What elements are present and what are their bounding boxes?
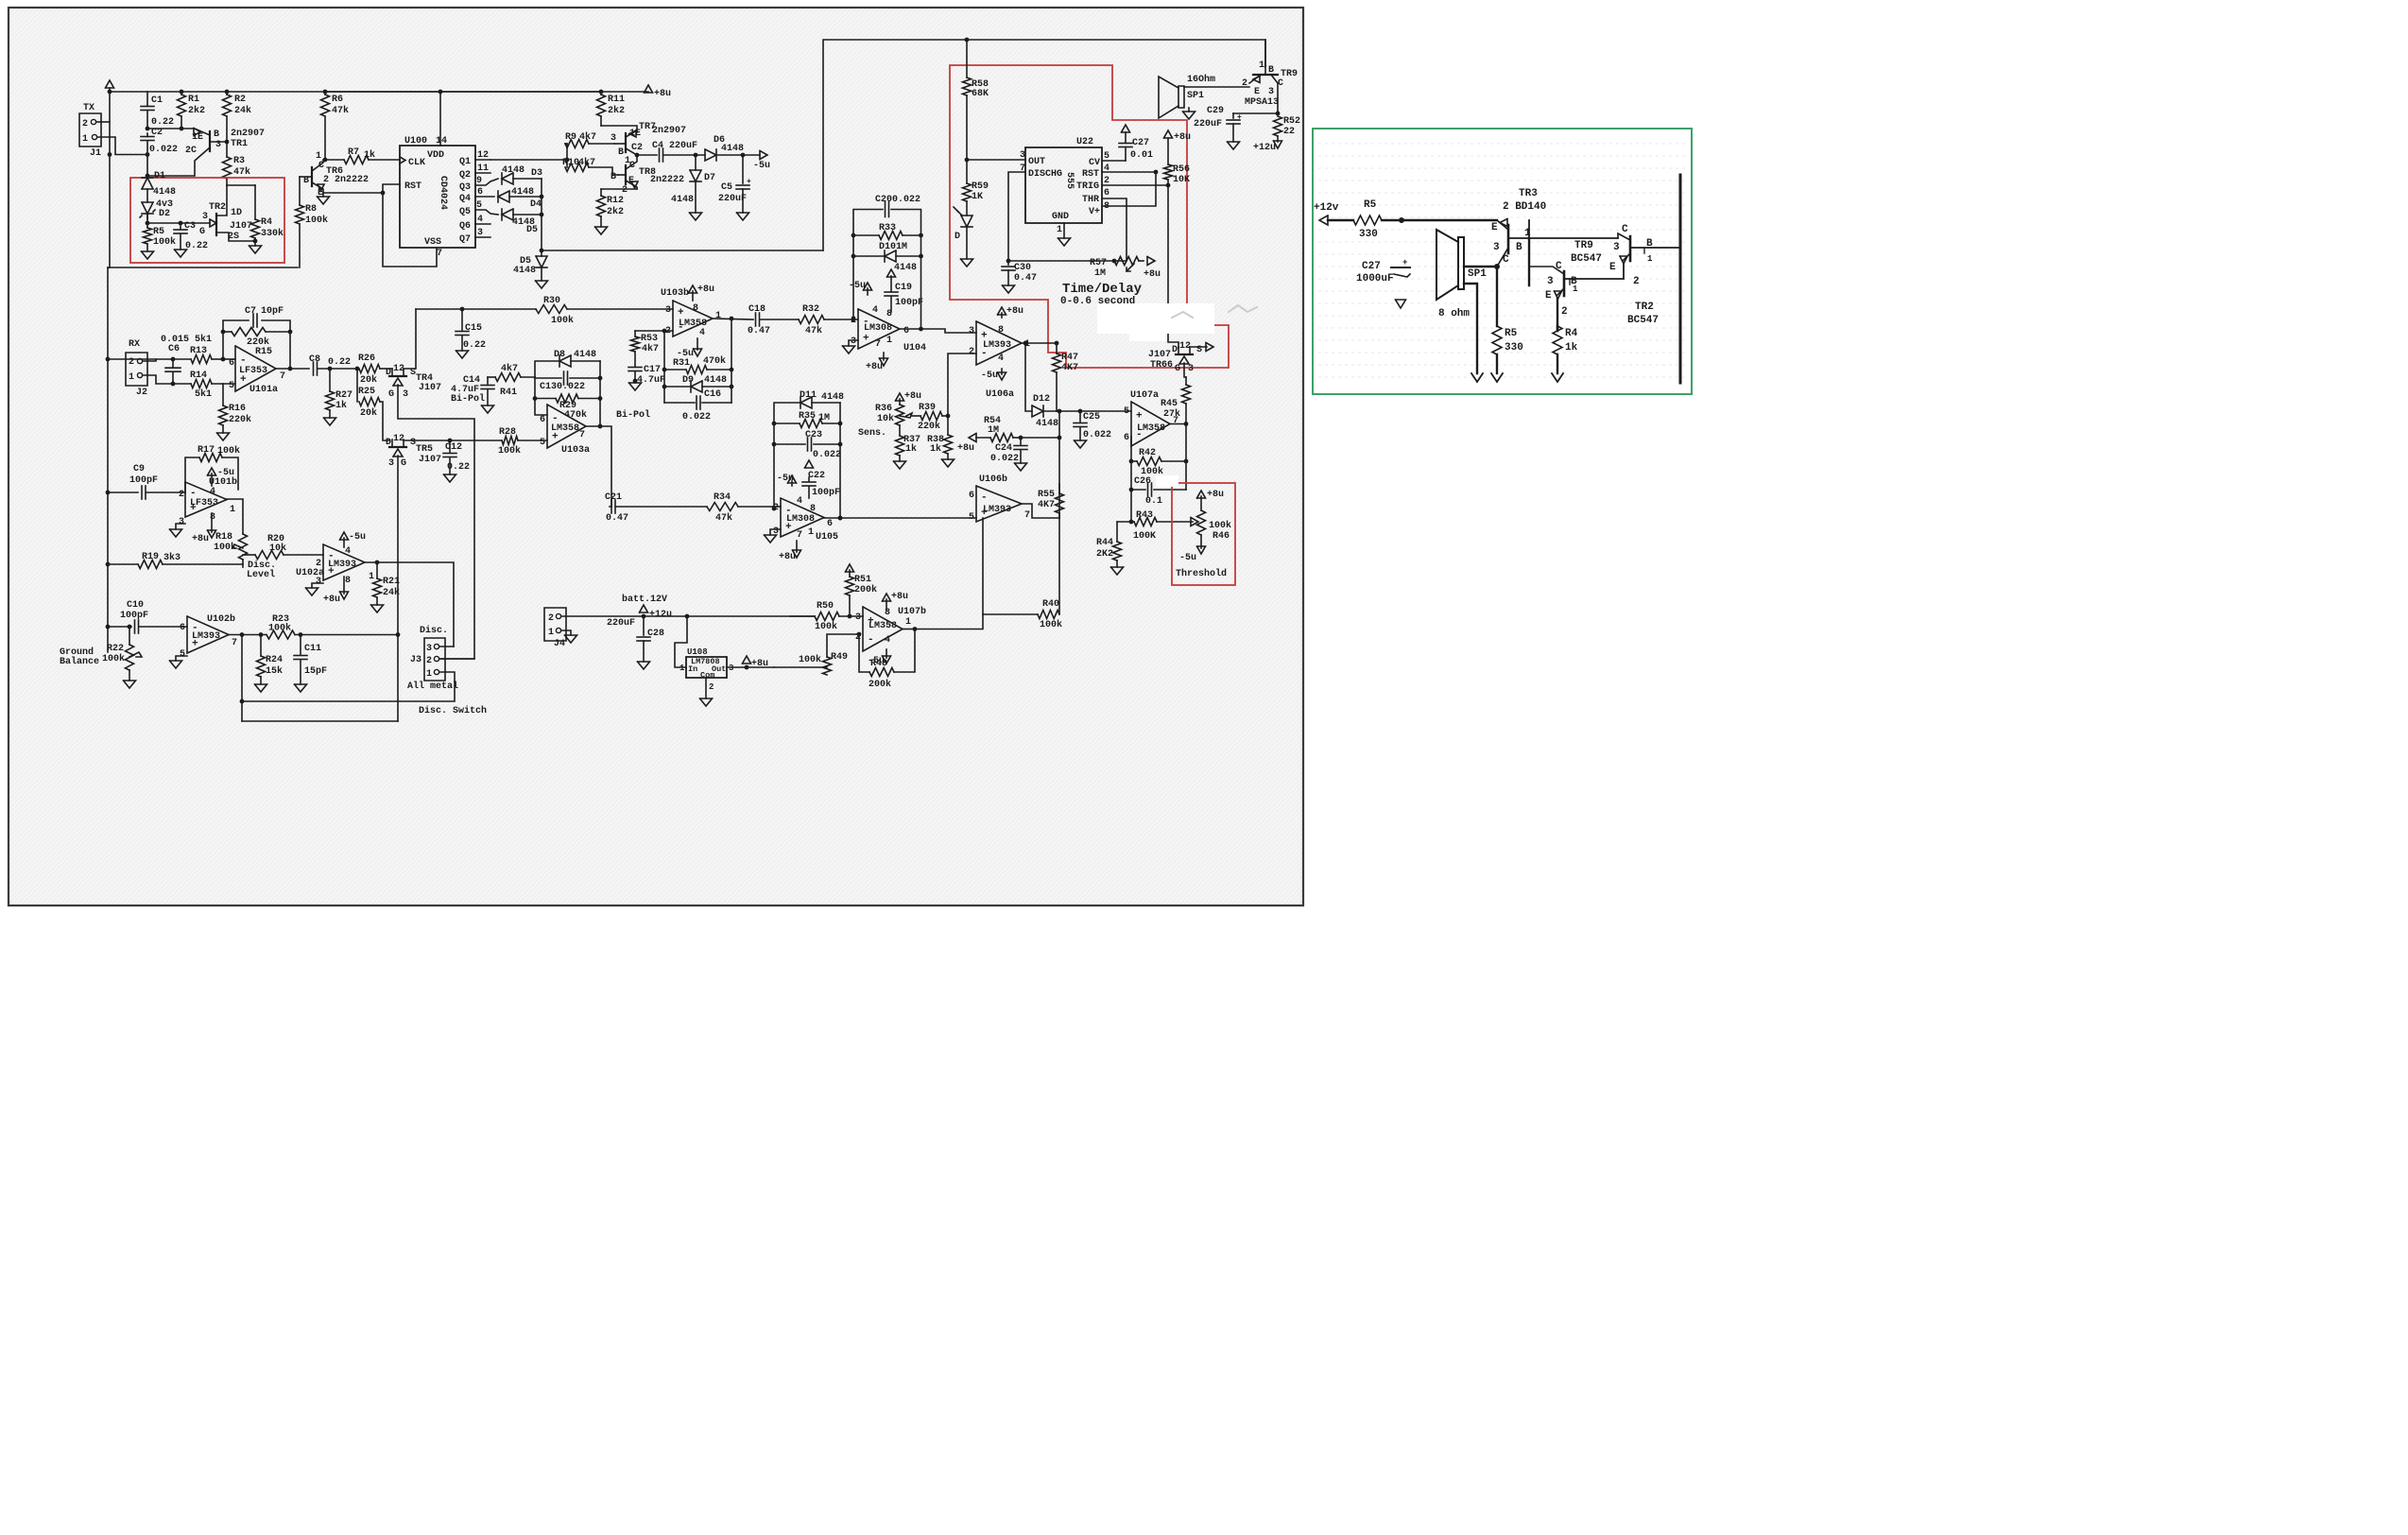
svg-text:2: 2	[1561, 306, 1568, 318]
svg-text:C5: C5	[721, 182, 732, 193]
power arrow +8u right end of bus	[645, 85, 653, 93]
transistor TR5 J107	[389, 446, 406, 448]
LED D	[961, 216, 972, 227]
svg-text:5k1: 5k1	[195, 334, 212, 345]
wire U106b out to R55	[1022, 504, 1059, 518]
svg-text:+12v: +12v	[1314, 202, 1339, 214]
svg-text:R43: R43	[1136, 510, 1153, 521]
wire left rail to C6 row	[108, 358, 156, 360]
svg-text:100k: 100k	[498, 445, 521, 457]
inset speaker return wire	[1464, 284, 1477, 373]
svg-text:4: 4	[998, 354, 1004, 364]
resistor R21 24k	[376, 562, 378, 578]
svg-text:200k: 200k	[869, 679, 891, 690]
svg-text:5: 5	[969, 512, 974, 523]
svg-text:U103a: U103a	[561, 445, 590, 456]
svg-text:7: 7	[797, 530, 802, 541]
svg-text:RST: RST	[1082, 169, 1099, 180]
bottom rail of TX block	[108, 267, 298, 268]
ground below D5	[536, 281, 548, 288]
wire U102b out down	[241, 635, 243, 722]
svg-text:batt.12V: batt.12V	[622, 594, 667, 605]
wire U106a out to R47	[1022, 342, 1057, 344]
svg-text:2n2907: 2n2907	[652, 126, 686, 136]
svg-text:R25: R25	[358, 387, 375, 397]
svg-text:TR9: TR9	[1574, 240, 1593, 251]
svg-text:2k2: 2k2	[608, 105, 625, 116]
svg-text:Bi-Pol: Bi-Pol	[451, 393, 485, 405]
svg-text:TRIG: TRIG	[1076, 181, 1099, 192]
wire C24 node to R47 column	[1021, 437, 1059, 439]
svg-text:C26: C26	[1134, 476, 1151, 487]
svg-text:C7: C7	[245, 306, 256, 317]
op-amp U106a LM393	[976, 321, 1022, 365]
svg-text:J107: J107	[230, 221, 252, 232]
svg-text:100k: 100k	[551, 315, 574, 326]
wire U102a out to J3 pin3	[365, 562, 454, 647]
capacitor C16 0.022	[664, 402, 695, 404]
diode D6 4148	[705, 149, 716, 161]
svg-text:20k: 20k	[360, 407, 377, 419]
svg-text:CLK: CLK	[408, 158, 425, 168]
svg-text:C: C	[1503, 254, 1509, 266]
svg-text:+8u: +8u	[779, 552, 796, 562]
svg-text:C: C	[318, 161, 324, 171]
junction dot R26 left	[355, 367, 360, 371]
svg-text:+8u: +8u	[1144, 269, 1161, 280]
junction dot U101a in- node	[221, 357, 226, 362]
svg-text:100k: 100k	[799, 654, 821, 665]
svg-text:8: 8	[693, 303, 698, 314]
svg-text:R14: R14	[190, 371, 207, 381]
wire U107a out node	[1170, 423, 1186, 425]
svg-text:-5u: -5u	[1179, 553, 1196, 563]
svg-text:1k: 1k	[1565, 342, 1578, 354]
wire top bus +8v rail	[110, 91, 648, 93]
svg-text:6: 6	[969, 491, 974, 501]
resistor R44 2K2	[1116, 522, 1118, 542]
svg-text:2: 2	[426, 656, 432, 666]
svg-text:0.022: 0.022	[813, 450, 841, 460]
svg-text:R26: R26	[358, 354, 375, 364]
wire U106 outputs to R40 col	[982, 518, 984, 614]
svg-text:RST: RST	[404, 181, 421, 192]
svg-text:5: 5	[229, 381, 234, 391]
svg-text:3: 3	[179, 517, 184, 527]
svg-text:C22: C22	[808, 471, 825, 481]
capacitor C25 0.022	[1079, 411, 1081, 422]
svg-text:16Ohm: 16Ohm	[1187, 74, 1215, 85]
svg-text:R15: R15	[255, 347, 272, 357]
svg-text:LM308: LM308	[786, 514, 815, 525]
svg-text:R33: R33	[879, 223, 896, 233]
resistor R41 4k7	[488, 376, 495, 378]
white patch artifact near TR66	[1097, 303, 1214, 334]
inset transistor TR3 BD140	[1507, 225, 1510, 253]
svg-text:LF353: LF353	[190, 498, 218, 509]
potentiometer R46 100k	[1197, 510, 1206, 535]
ground U101b pin3	[176, 524, 185, 529]
svg-text:LM358: LM358	[869, 621, 897, 631]
pin stubs U100 outputs	[475, 159, 490, 161]
inset ground V below R5	[1491, 373, 1503, 382]
svg-text:D1: D1	[154, 171, 165, 181]
svg-text:R44: R44	[1096, 538, 1113, 548]
svg-text:+: +	[1136, 411, 1143, 423]
svg-text:Q3: Q3	[459, 182, 471, 193]
op-amp U104 LM308	[858, 309, 900, 349]
svg-text:Threshold: Threshold	[1176, 568, 1227, 579]
capacitor C14 4.7uF Bi-Pol	[487, 377, 489, 384]
svg-text:TR2: TR2	[1635, 302, 1654, 313]
junction dot C10-R22	[128, 625, 132, 630]
diode D3 4148	[502, 173, 513, 184]
svg-text:Time/Delay: Time/Delay	[1062, 282, 1143, 297]
svg-text:3: 3	[729, 664, 733, 673]
svg-text:R12: R12	[607, 196, 624, 206]
svg-text:Q1: Q1	[459, 157, 471, 167]
svg-text:R31: R31	[673, 358, 690, 369]
ground below 555 GND pin	[1063, 223, 1065, 238]
svg-text:8: 8	[345, 576, 351, 586]
svg-text:1: 1	[548, 628, 554, 638]
svg-text:6: 6	[180, 623, 185, 633]
capacitor C21 0.47	[610, 506, 611, 508]
svg-text:1: 1	[1057, 225, 1062, 235]
resistor R13 5k1	[173, 358, 191, 360]
ground below R16	[217, 433, 230, 440]
svg-text:4k7: 4k7	[578, 157, 595, 168]
resistor R55 4K7	[1058, 484, 1060, 493]
svg-text:BC547: BC547	[1571, 253, 1602, 265]
svg-text:2n2222: 2n2222	[650, 175, 684, 185]
resistor R53 4k7	[634, 331, 636, 336]
svg-text:24k: 24k	[383, 587, 400, 598]
svg-text:VSS: VSS	[424, 237, 441, 248]
svg-text:3: 3	[477, 228, 483, 238]
svg-text:+8u: +8u	[891, 592, 908, 602]
svg-text:D: D	[1172, 345, 1178, 355]
ground below speaker SP1	[1188, 108, 1190, 112]
svg-text:1: 1	[1259, 60, 1264, 71]
svg-text:4k7: 4k7	[579, 131, 596, 143]
svg-text:TR2: TR2	[209, 202, 226, 213]
svg-text:Q2: Q2	[459, 170, 471, 181]
resistor R28 100k	[502, 437, 518, 445]
svg-text:U106a: U106a	[986, 389, 1014, 400]
wire U106a pin2 to R38 node	[948, 354, 976, 416]
wire J3 pin1 to all-metal line	[242, 672, 455, 701]
svg-text:R57: R57	[1090, 258, 1107, 268]
svg-text:R32: R32	[802, 304, 819, 315]
svg-text:U106b: U106b	[979, 474, 1007, 485]
svg-text:47k: 47k	[332, 105, 349, 116]
svg-text:0.47: 0.47	[1014, 273, 1037, 284]
power -5v below U107b	[886, 649, 887, 658]
potentiometer R18 100k Disc Level	[239, 534, 248, 560]
svg-text:U108: U108	[687, 647, 708, 657]
svg-text:4148: 4148	[511, 187, 534, 198]
svg-text:7: 7	[875, 339, 881, 350]
svg-text:0.1: 0.1	[1145, 496, 1162, 507]
svg-text:330k: 330k	[261, 228, 284, 239]
svg-text:D4: D4	[530, 199, 542, 210]
svg-text:J4: J4	[554, 639, 565, 649]
svg-text:C: C	[1622, 224, 1628, 235]
resistor R45 27k	[1185, 377, 1187, 385]
svg-text:3k3: 3k3	[163, 552, 181, 563]
capacitor C28 220uF	[643, 616, 645, 635]
feedback box U103a left	[535, 377, 547, 415]
arrow above C27	[1122, 125, 1130, 132]
svg-text:R8: R8	[305, 204, 317, 215]
wire TR5 source to R28	[404, 440, 502, 441]
junction dots on +8v bus	[180, 90, 184, 95]
svg-text:LM393: LM393	[192, 631, 220, 642]
svg-text:3: 3	[403, 389, 408, 400]
connector J3 Disc switch	[424, 638, 445, 681]
wire U101a output	[276, 368, 309, 370]
svg-text:C200.022: C200.022	[875, 195, 920, 205]
svg-text:TX: TX	[83, 103, 95, 113]
feedback resistor R17 100k	[185, 457, 199, 492]
inset wire TR3 base node down	[1528, 238, 1530, 285]
svg-text:In: In	[688, 664, 697, 674]
svg-text:D: D	[955, 232, 960, 242]
svg-text:470k: 470k	[564, 409, 587, 421]
svg-text:U22: U22	[1076, 137, 1093, 147]
svg-text:R5: R5	[1505, 328, 1518, 339]
svg-text:R24: R24	[266, 655, 283, 665]
ground below R21	[371, 605, 384, 612]
svg-text:+12u: +12u	[1253, 143, 1276, 153]
svg-text:+8u: +8u	[1006, 306, 1023, 317]
svg-text:100k: 100k	[305, 215, 328, 226]
svg-text:1: 1	[82, 134, 88, 145]
svg-text:Disc.: Disc.	[420, 625, 448, 636]
power +8v above R46	[1197, 491, 1206, 498]
feedback resistor R15 220k	[222, 332, 224, 359]
inset resistor R5 330 (series)	[1353, 216, 1382, 225]
svg-text:1k: 1k	[930, 443, 941, 455]
svg-text:C8: C8	[309, 354, 320, 365]
ground U102b pin5	[176, 656, 187, 661]
svg-text:R16: R16	[229, 404, 246, 414]
junction dot TR7/TR8 collectors	[635, 153, 640, 158]
wire J2 pin2 to C6 node	[143, 359, 173, 361]
wire R47 bottom jog	[1057, 410, 1059, 412]
svg-text:3: 3	[1268, 87, 1274, 97]
ground U105 pin3	[770, 529, 781, 535]
capacitor C2	[141, 136, 154, 138]
svg-text:LM393: LM393	[328, 560, 356, 570]
resistor R3	[223, 157, 232, 179]
svg-text:5: 5	[540, 438, 545, 448]
feedback box U104 (C20,R33,D10)	[853, 210, 883, 320]
svg-text:0.022: 0.022	[149, 145, 178, 155]
resistor R33 1M	[853, 234, 879, 236]
svg-text:Q4: Q4	[459, 194, 471, 204]
svg-text:Balance: Balance	[60, 656, 99, 667]
svg-text:+: +	[747, 178, 751, 186]
ground below C14	[482, 405, 494, 413]
svg-text:2: 2	[709, 682, 714, 692]
svg-text:100k: 100k	[153, 236, 176, 248]
svg-text:47k: 47k	[805, 325, 822, 336]
svg-text:D9: D9	[682, 375, 694, 386]
resistor R58 68K	[966, 40, 968, 78]
svg-text:+8u: +8u	[654, 89, 671, 99]
svg-text:TR66: TR66	[1150, 360, 1173, 371]
capacitor C1	[146, 92, 148, 106]
svg-text:1: 1	[808, 527, 814, 538]
svg-text:3: 3	[855, 612, 861, 623]
svg-text:Level: Level	[247, 569, 275, 580]
ground U102a pin3	[312, 583, 323, 588]
svg-text:100k: 100k	[1209, 520, 1231, 531]
wire Q1 pin12 to R9/R10 node	[490, 159, 567, 161]
svg-text:SP1: SP1	[1468, 268, 1487, 280]
resistor R38 1k	[947, 416, 949, 435]
svg-text:D2: D2	[159, 209, 170, 219]
wire R56 net down to TR66	[1168, 185, 1178, 348]
svg-text:U101a: U101a	[249, 385, 278, 395]
transistor TR1 2n2907	[209, 131, 211, 151]
svg-text:1: 1	[905, 617, 911, 628]
diode D7 4148	[695, 155, 697, 170]
svg-text:Bi-Pol: Bi-Pol	[616, 409, 650, 421]
svg-text:TR3: TR3	[1519, 188, 1538, 199]
svg-text:R1: R1	[188, 95, 199, 105]
ground U104 pin3	[849, 340, 858, 346]
capacitor C26 0.1	[1131, 489, 1145, 491]
highlight path (red) around 555 timer block	[950, 65, 1229, 368]
svg-text:12: 12	[477, 150, 489, 161]
svg-text:CV: CV	[1089, 158, 1100, 168]
ground below R37	[894, 461, 906, 469]
svg-text:0.22: 0.22	[447, 462, 470, 473]
svg-text:2n2907: 2n2907	[231, 129, 265, 139]
svg-text:8 ohm: 8 ohm	[1438, 308, 1470, 319]
svg-text:47k: 47k	[233, 166, 250, 178]
inset transistor TR2 BC547	[1629, 236, 1632, 261]
wire U101b out to R18	[227, 499, 243, 534]
svg-text:C29: C29	[1207, 106, 1224, 116]
svg-text:-: -	[552, 413, 559, 424]
svg-text:3: 3	[1547, 276, 1554, 287]
wire C21 row to U105	[773, 506, 781, 508]
svg-text:1: 1	[369, 572, 374, 582]
svg-text:+8u: +8u	[957, 443, 974, 454]
svg-text:14: 14	[436, 136, 447, 147]
svg-text:-5u: -5u	[981, 371, 998, 381]
junction dot TR1 base	[225, 140, 230, 145]
op-amp U106b LM393	[976, 486, 1022, 522]
ground below C28	[638, 662, 650, 669]
resistor R54 1M	[969, 434, 976, 442]
svg-text:THR: THR	[1082, 195, 1099, 205]
capacitor C8 0.22	[313, 362, 315, 375]
zener diode D2 4v3	[142, 202, 153, 214]
svg-text:3: 3	[202, 212, 208, 222]
svg-text:B: B	[214, 129, 219, 140]
svg-text:220k: 220k	[918, 421, 940, 432]
op-amp U101b LF353	[185, 482, 227, 517]
resistor R29 470k	[535, 398, 556, 400]
svg-text:0.22: 0.22	[151, 117, 174, 128]
inset ground V below R4	[1552, 373, 1563, 382]
inset faint grid lines	[1318, 143, 1686, 145]
svg-text:100k: 100k	[214, 542, 236, 553]
svg-text:3: 3	[1493, 242, 1500, 253]
svg-text:22: 22	[1283, 127, 1295, 137]
svg-text:7: 7	[437, 249, 442, 259]
inset transistor TR9 BC547	[1563, 271, 1566, 296]
svg-text:7: 7	[232, 638, 237, 648]
inset ground V below speaker wire	[1471, 373, 1483, 382]
diode D8 4148	[535, 361, 559, 377]
svg-text:0.47: 0.47	[606, 513, 628, 524]
capacitor C5 220uF	[742, 155, 744, 183]
svg-text:R52: R52	[1283, 116, 1300, 127]
svg-text:-5u: -5u	[349, 532, 366, 543]
svg-text:U105: U105	[816, 532, 838, 543]
svg-text:1E: 1E	[192, 132, 203, 143]
transistor TR8 2n2222	[625, 165, 627, 184]
svg-text:G: G	[401, 458, 406, 469]
svg-text:C25: C25	[1083, 412, 1100, 423]
svg-text:2: 2	[969, 347, 974, 357]
resistor R32 47k	[799, 316, 824, 324]
svg-text:R11: R11	[608, 95, 625, 105]
capacitor C29 220uF	[1233, 112, 1278, 114]
svg-text:+8u: +8u	[1174, 132, 1191, 143]
junction dot 555 OUT node	[965, 158, 970, 163]
svg-text:G: G	[199, 227, 205, 237]
transistor TR6 2n2222	[311, 167, 313, 186]
wire U107a out down	[1185, 424, 1187, 491]
svg-text:1k: 1k	[335, 400, 347, 411]
svg-text:R5: R5	[1364, 199, 1377, 211]
wire U102b out	[229, 634, 267, 636]
wire TR6 emitter row to RST	[323, 192, 383, 194]
svg-text:2 BD140: 2 BD140	[1503, 201, 1546, 213]
svg-text:C11: C11	[304, 644, 321, 654]
svg-text:220k: 220k	[247, 336, 269, 348]
ground below C11	[295, 684, 307, 692]
junction dot D1 node	[146, 174, 150, 179]
resistor R56 10K	[1167, 138, 1169, 164]
svg-text:5: 5	[476, 200, 482, 211]
wire TR2 drain to R4	[227, 184, 255, 186]
svg-text:C2: C2	[631, 143, 643, 153]
svg-text:2k2: 2k2	[607, 206, 624, 217]
svg-text:2: 2	[1242, 78, 1247, 89]
svg-text:555: 555	[1064, 172, 1075, 189]
diode D5 4148 (mid)	[502, 209, 513, 220]
wire TR4 source up to R30 row	[404, 309, 416, 369]
svg-text:4148: 4148	[721, 144, 744, 154]
resistor R35 1M	[774, 423, 800, 424]
feedback box U105 (C23,R35,D11)	[774, 403, 800, 509]
svg-text:3: 3	[215, 140, 221, 150]
svg-text:330: 330	[1505, 342, 1523, 354]
svg-text:4.7uF: 4.7uF	[637, 375, 665, 386]
ground below R22	[124, 681, 136, 688]
svg-text:J1: J1	[90, 148, 101, 159]
power arrow +8v at U108	[743, 656, 751, 664]
svg-text:C19: C19	[895, 283, 912, 293]
